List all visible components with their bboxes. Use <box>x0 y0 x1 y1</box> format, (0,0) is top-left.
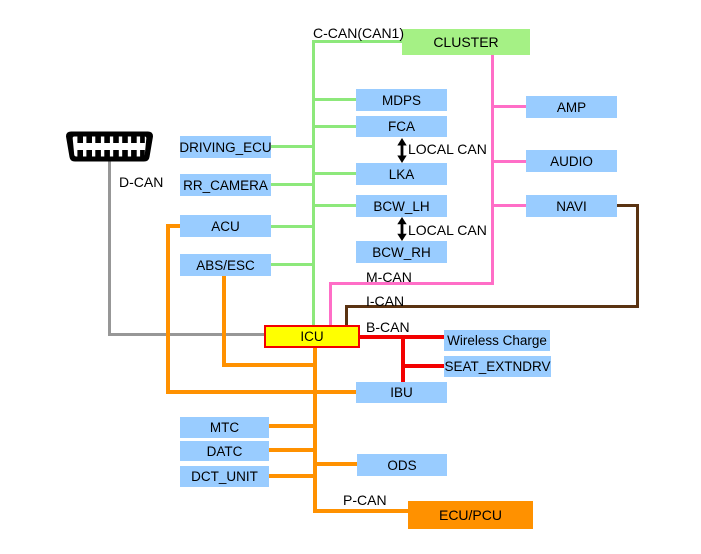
wire green branch to BCW_LH <box>315 204 356 207</box>
box MTC <box>180 417 269 438</box>
box CLUSTER <box>402 29 530 55</box>
box ODS <box>357 454 447 476</box>
label LOCAL CAN lower <box>408 223 487 237</box>
box ICU <box>264 325 360 348</box>
box ECU/PCU <box>408 501 533 529</box>
wire green branch to DRIVING_ECU <box>271 145 312 148</box>
box RR_CAMERA <box>180 174 271 196</box>
box LKA <box>356 163 447 185</box>
box FCA <box>356 116 447 137</box>
wire orange branch DCT_UNIT <box>269 474 313 478</box>
label B-CAN <box>366 320 410 334</box>
wire orange vertical B (ABS/ESC down) <box>222 275 226 367</box>
box AUDIO <box>526 150 617 172</box>
box DRIVING_ECU <box>180 136 271 158</box>
box ABS/ESC <box>180 254 271 276</box>
wire orange vertical A (ACU down) <box>166 224 170 394</box>
label LOCAL CAN upper <box>408 142 487 156</box>
wire brown I-CAN drop to ICU <box>345 305 348 325</box>
wire green branch to FCA <box>315 125 356 128</box>
box DATC <box>180 441 269 461</box>
label P-CAN <box>343 493 387 507</box>
box SEAT_EXTNDRV <box>444 356 551 377</box>
wire red B-CAN vertical to IBU <box>401 335 405 383</box>
wire green branch to ACU <box>271 225 312 228</box>
wire brown I-CAN vertical right <box>636 204 639 308</box>
arrow LOCAL CAN between BCW_LH and BCW_RH <box>393 217 411 241</box>
wire pink branch to AMP <box>494 105 526 108</box>
box BCW_LH <box>356 195 447 217</box>
wire green branch to LKA <box>315 172 356 175</box>
wire green branch to RR_CAMERA <box>271 183 312 186</box>
box Wireless Charge <box>444 330 550 351</box>
label I-CAN <box>366 294 404 308</box>
box IBU <box>356 382 447 403</box>
label D-CAN <box>119 175 163 189</box>
wire orange horizontal B to main <box>222 363 316 367</box>
OBD-II diagnostic connector icon <box>64 130 155 163</box>
label C-CAN(CAN1) <box>313 26 404 40</box>
box ACU <box>180 215 271 237</box>
wire orange branch DATC <box>269 448 313 452</box>
wire gray D-CAN vertical <box>108 161 111 336</box>
wire gray D-CAN horizontal to ICU <box>108 333 264 336</box>
wire orange branch ODS <box>317 462 358 466</box>
wire orange P-CAN to ECU/PCU <box>313 509 408 513</box>
arrow LOCAL CAN between FCA and LKA <box>393 138 411 163</box>
wire orange main vertical under ICU <box>313 347 317 513</box>
wire red branch to SEAT_EXTNDRV <box>401 364 444 368</box>
wire brown I-CAN horizontal <box>345 305 639 308</box>
wire brown I-CAN from NAVI right <box>617 204 639 207</box>
box DCT_UNIT <box>180 466 269 487</box>
wire pink branch to NAVI <box>494 204 526 207</box>
wire orange from ACU left <box>166 224 180 228</box>
wire green branch to MDPS <box>315 98 356 101</box>
wire orange branch MTC <box>269 424 313 428</box>
wire pink M-CAN drop to ICU <box>329 282 332 325</box>
box MDPS <box>356 89 447 111</box>
wire pink M-CAN vertical from CLUSTER <box>491 55 494 285</box>
box NAVI <box>526 195 617 217</box>
wire green top horizontal to CLUSTER <box>312 40 402 43</box>
wire red B-CAN horizontal from ICU <box>360 335 444 339</box>
wire green branch to ABS/ESC <box>271 263 312 266</box>
box BCW_RH <box>356 241 447 263</box>
wire green C-CAN vertical bus <box>312 40 315 325</box>
box AMP <box>526 96 617 118</box>
wire pink M-CAN horizontal <box>329 282 494 285</box>
wire orange horizontal to IBU <box>166 390 356 394</box>
wire pink branch to AUDIO <box>494 160 526 163</box>
label M-CAN <box>366 270 412 284</box>
